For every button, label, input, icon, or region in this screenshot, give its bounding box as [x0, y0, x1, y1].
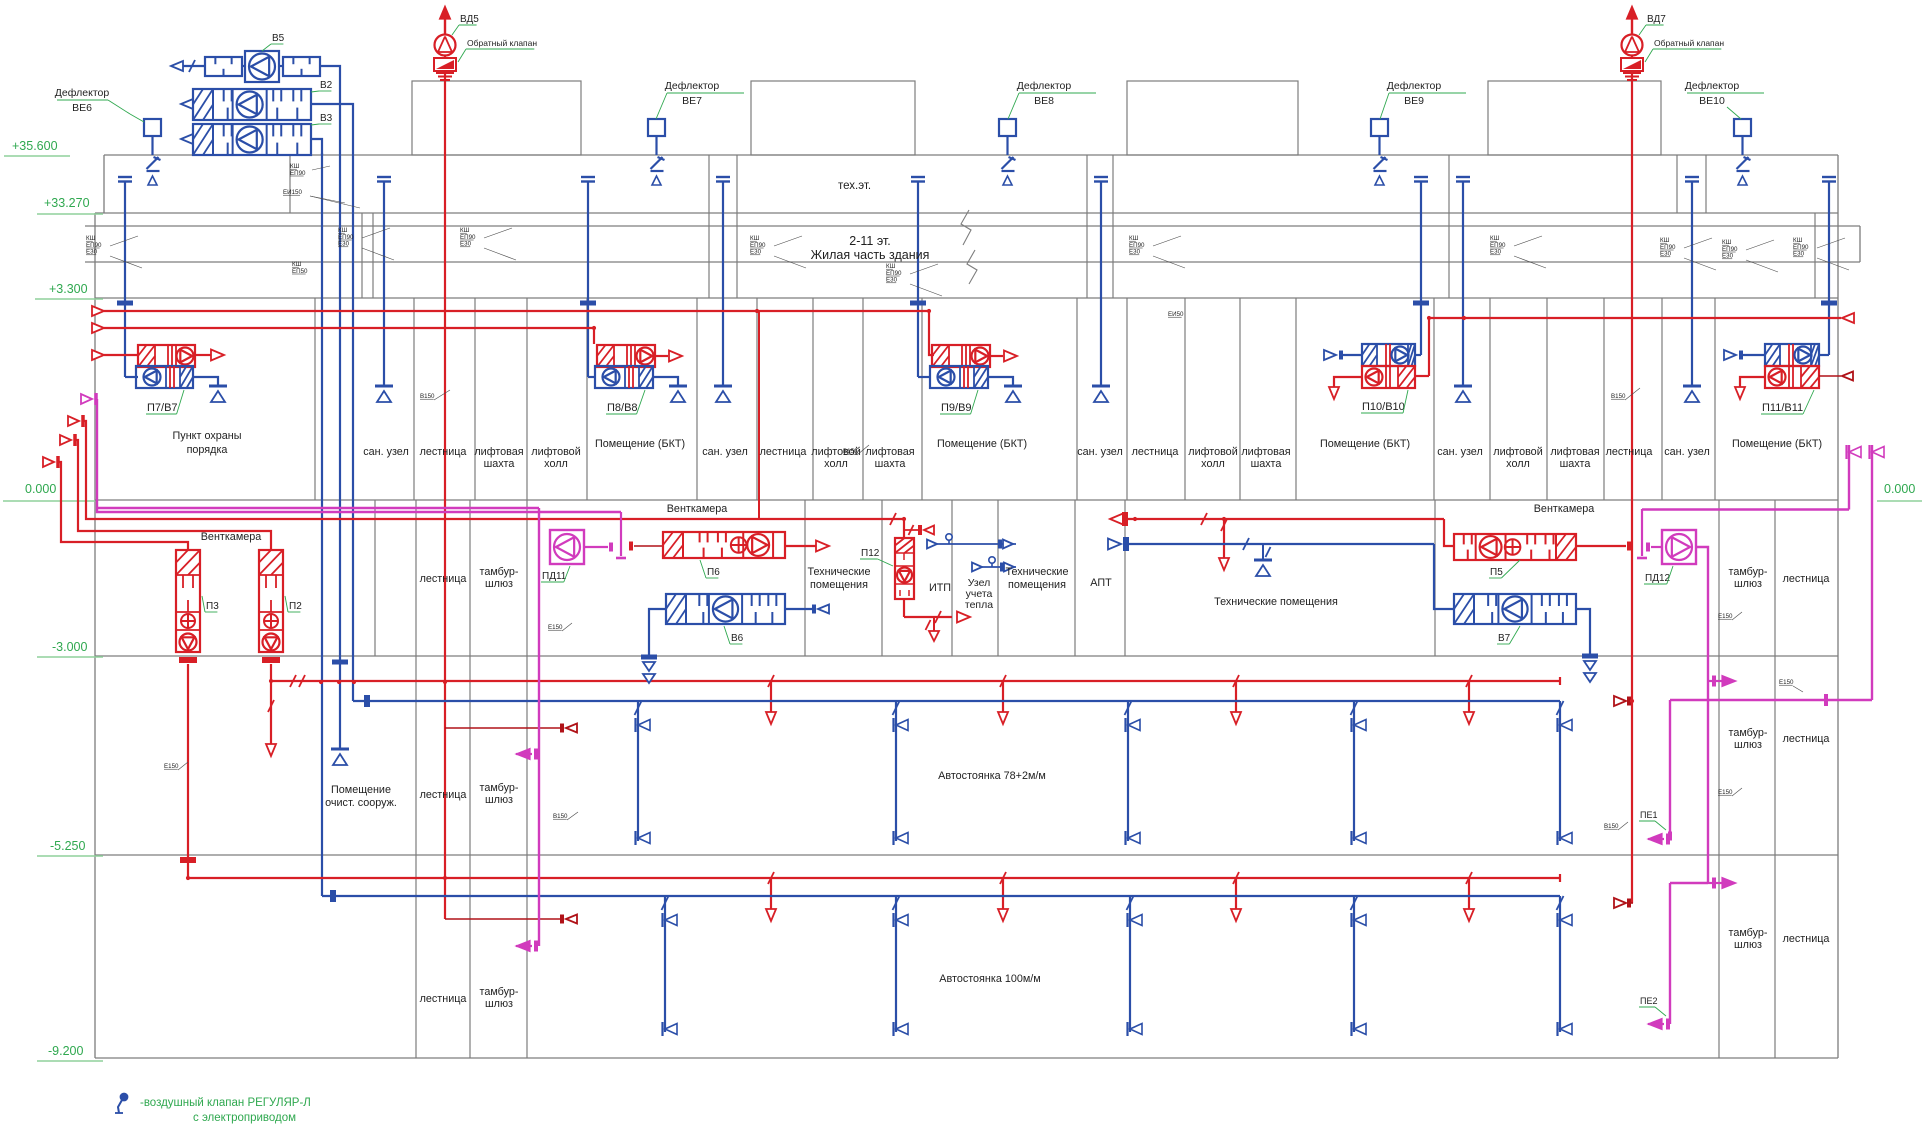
supply/exhaust unit P11/V11 blue box — [1765, 344, 1819, 366]
blue riser from B3 down to parking level2 main — [321, 153, 323, 896]
B5 silencer right — [283, 57, 320, 76]
blue outlet to grille P7 — [193, 377, 218, 386]
red supply outlet arrow P9 — [990, 355, 1003, 357]
blue parking level1 main — [353, 700, 1560, 702]
red supply outlet arrow P7 — [195, 354, 211, 356]
apartment exhaust riser cap at x=588 — [581, 176, 595, 178]
svg-text:П10/В10: П10/В10 — [1362, 401, 1405, 413]
svg-text:В7: В7 — [1498, 633, 1511, 644]
blue outlet to grille P8 — [653, 377, 678, 386]
svg-text:В3: В3 — [320, 113, 333, 124]
red vertical link to ventchamber main — [758, 311, 760, 519]
PE2 drop — [1669, 883, 1671, 1024]
supply/exhaust unit P8/V8 red box — [597, 345, 655, 367]
P12 outlet down to ITP — [903, 599, 905, 617]
basement -3.000 level walls — [374, 500, 376, 656]
roof exhaust fan VD7 arrow up — [1631, 12, 1633, 34]
magenta riser right A — [1848, 445, 1850, 510]
svg-text:лифтовой: лифтовой — [531, 446, 580, 458]
riser san-uzel 20 with grille — [1691, 182, 1693, 386]
PD11 drop with cap — [620, 512, 622, 556]
heat meter piping row2 — [972, 563, 982, 572]
slab +3.300 — [95, 297, 1838, 299]
svg-text:шахта: шахта — [1560, 458, 1591, 470]
PD12 riser branch level2 — [1712, 878, 1716, 889]
riser P8/V8 exhaust — [587, 182, 589, 377]
red exhaust to facade arrow P11 — [1819, 375, 1841, 377]
red drop to APT — [1221, 519, 1227, 531]
svg-text:лифтовой: лифтовой — [1493, 446, 1542, 458]
svg-text:лестница: лестница — [420, 993, 467, 1005]
unit P11/V11 red box — [1765, 366, 1819, 388]
svg-text:Дефлектор: Дефлектор — [1685, 80, 1740, 92]
riser san-uzel 12 with grille — [1100, 182, 1102, 386]
roof fan VD7 symbol — [1622, 35, 1643, 56]
parking level 2 walls — [415, 855, 417, 1058]
svg-text:АПТ: АПТ — [1090, 577, 1112, 589]
magenta riser right B — [1871, 445, 1873, 700]
red parking level2 supply drops — [768, 872, 774, 884]
supply unit P5 — [1454, 534, 1576, 560]
svg-text:сан. узел: сан. узел — [702, 446, 748, 458]
ITP branch down arrow — [933, 617, 935, 632]
svg-text:Помещение: Помещение — [331, 784, 391, 796]
svg-text:помещения: помещения — [810, 579, 868, 591]
junction dots — [1462, 316, 1466, 320]
apartment exhaust riser cap at x=918 — [911, 176, 925, 178]
red supply down arrow P11 — [1740, 377, 1765, 389]
unit P8/V8 blue box — [595, 366, 653, 388]
roof box 3 — [1127, 81, 1298, 155]
riser san-uzel 2 with grille — [383, 182, 385, 386]
svg-text:шлюз: шлюз — [1734, 739, 1762, 751]
pressurization intake PD11 — [81, 394, 92, 404]
apartment exhaust riser cap at x=1101 — [1094, 176, 1108, 178]
P2 flange at -3.000 — [262, 657, 280, 663]
svg-text:Автостоянка 78+2м/м: Автостоянка 78+2м/м — [938, 770, 1046, 782]
svg-text:ВД5: ВД5 — [460, 14, 479, 25]
supply unit P2 vertical — [259, 550, 283, 652]
outside air intake arrows left — [68, 416, 79, 426]
red P2 riser to parking level1 main — [270, 664, 272, 746]
heat meter piping row1 — [927, 540, 937, 549]
legend air valve icon — [121, 1094, 128, 1101]
unit P10/V10 red box — [1362, 366, 1415, 388]
svg-text:очист. сооруж.: очист. сооруж. — [325, 797, 397, 809]
deflector BE8 — [999, 119, 1016, 136]
VD5 branch parking level1 — [445, 727, 561, 729]
svg-text:П2: П2 — [289, 601, 302, 612]
roof box 4 — [1488, 81, 1661, 155]
svg-text:ПД11: ПД11 — [542, 571, 567, 582]
svg-text:П6: П6 — [707, 567, 720, 578]
svg-text:сан. узел: сан. узел — [1664, 446, 1710, 458]
svg-text:шлюз: шлюз — [485, 578, 513, 590]
svg-text:лестница: лестница — [1132, 446, 1179, 458]
PD12 inlet flange — [1646, 543, 1650, 552]
svg-text:Автостоянка 100м/м: Автостоянка 100м/м — [939, 973, 1040, 985]
red parking level1 supply main — [271, 680, 1560, 682]
B7 inlet from APT blue main — [1108, 539, 1121, 550]
svg-text:тамбур-: тамбур- — [1729, 566, 1768, 578]
red parking level2 supply main — [188, 877, 1560, 879]
red supply main 2 — [92, 323, 104, 333]
apartment exhaust riser cap at x=1421 — [1414, 176, 1428, 178]
svg-text:Венткамера: Венткамера — [1534, 503, 1595, 515]
svg-text:В5: В5 — [272, 33, 285, 44]
break mark in residential band — [961, 210, 971, 245]
magenta horizontal 0.000 right — [1642, 508, 1849, 510]
apartment exhaust riser cap at x=723 — [716, 176, 730, 178]
riser P7/V7 exhaust — [124, 182, 126, 377]
red parking level1 supply drops — [768, 675, 774, 687]
floor -3.000 slab — [95, 655, 1838, 657]
svg-text:В6: В6 — [731, 633, 744, 644]
roof fan VD5 symbol — [435, 35, 456, 56]
wire B2 outlet to riser — [311, 104, 353, 122]
svg-text:Технические: Технические — [808, 566, 871, 578]
svg-text:Дефлектор: Дефлектор — [1387, 80, 1442, 92]
P12 feed from red main — [890, 513, 896, 525]
magenta parking link level1 — [1670, 699, 1872, 701]
exhaust unit B2 — [181, 99, 193, 109]
blue intake arrow P11 — [1724, 350, 1736, 360]
svg-text:-воздушный клапан РЕГУЛЯР-Л: -воздушный клапан РЕГУЛЯР-Л — [140, 1097, 311, 1109]
check valve VD5 — [434, 58, 456, 71]
exhaust unit B6 — [649, 609, 666, 655]
apartment exhaust riser cap at x=1829 — [1822, 176, 1836, 178]
blue parking level2 exhaust risers — [662, 896, 669, 910]
svg-text:лифтовой: лифтовой — [1188, 446, 1237, 458]
red supply outlet arrow P8 — [655, 355, 668, 357]
svg-text:П12: П12 — [861, 548, 880, 559]
svg-text:шлюз: шлюз — [1734, 939, 1762, 951]
wire B3 outlet to riser — [311, 139, 322, 155]
svg-text:+33.270: +33.270 — [44, 196, 90, 210]
svg-text:ВЕ6: ВЕ6 — [72, 102, 92, 114]
svg-text:лифтовая: лифтовая — [865, 446, 914, 458]
svg-text:Венткамера: Венткамера — [667, 503, 728, 515]
svg-text:В2: В2 — [320, 80, 333, 91]
tech floor bottom slab +33.270 — [95, 212, 1838, 214]
svg-text:лестница: лестница — [420, 789, 467, 801]
red feed from main P10 — [1415, 375, 1429, 377]
red intake drop 2 to P2 — [76, 440, 271, 550]
svg-text:ПЕ1: ПЕ1 — [1640, 810, 1657, 820]
blue outlet to grille P9 — [988, 377, 1013, 386]
svg-text:шлюз: шлюз — [1734, 578, 1762, 590]
svg-text:-3.000: -3.000 — [52, 640, 87, 654]
riser P10/V10 exhaust — [1420, 182, 1422, 355]
blue parking level1 exhaust risers — [635, 701, 642, 715]
VD7 branch parking level1 — [1628, 700, 1633, 702]
PD11 branch level1 — [534, 749, 538, 760]
fan B5 — [245, 51, 279, 82]
svg-text:Технические помещения: Технические помещения — [1214, 596, 1338, 608]
roof exhaust fan VD5 arrow up — [444, 12, 446, 34]
PE2 arrow — [1666, 1019, 1670, 1030]
deflector BE6 — [144, 119, 161, 136]
red supply main right segment to BKT facade intake — [1429, 317, 1841, 319]
wire B5 outlet to riser — [320, 66, 340, 89]
VD7 branch parking level2 — [1628, 902, 1633, 904]
svg-text:лестница: лестница — [1783, 573, 1830, 585]
svg-text:тамбур-: тамбур- — [480, 986, 519, 998]
svg-text:лестница: лестница — [1783, 933, 1830, 945]
svg-text:тепла: тепла — [965, 599, 993, 611]
right wall — [1837, 155, 1839, 1058]
svg-text:ВЕ7: ВЕ7 — [682, 95, 702, 107]
svg-text:тамбур-: тамбур- — [480, 566, 519, 578]
svg-text:лестница: лестница — [420, 573, 467, 585]
svg-text:П7/В7: П7/В7 — [147, 402, 178, 414]
svg-text:+3.300: +3.300 — [49, 282, 88, 296]
svg-text:тех.эт.: тех.эт. — [838, 180, 871, 192]
svg-text:ВЕ8: ВЕ8 — [1034, 95, 1054, 107]
supply/exhaust unit P10/V10 blue box — [1362, 344, 1415, 366]
floor 0.000 slab — [95, 499, 1838, 501]
red supply down arrow P10 — [1334, 377, 1362, 389]
parking level 1 walls — [415, 656, 417, 855]
svg-text:Помещение (БКТ): Помещение (БКТ) — [937, 438, 1027, 450]
riser san-uzel 7 with grille — [722, 182, 724, 386]
blue intake arrow P10 — [1324, 350, 1336, 360]
red feed riser P8 from main2 corner — [593, 329, 595, 344]
PD11 branch level2 — [534, 941, 538, 952]
svg-text:ВД7: ВД7 — [1647, 14, 1666, 25]
deflector BE10 — [1734, 119, 1751, 136]
pressurization duct to PE riser — [97, 507, 539, 509]
B7 outlet to parking — [1576, 609, 1590, 654]
svg-text:лестница: лестница — [1783, 733, 1830, 745]
supply/exhaust unit P7/V7 red box — [138, 345, 195, 367]
ITP intake damper — [904, 529, 921, 531]
svg-text:Дефлектор: Дефлектор — [1017, 80, 1072, 92]
exhaust unit B7 right — [1454, 594, 1576, 624]
supply unit P6 — [634, 545, 663, 547]
svg-text:Венткамера: Венткамера — [201, 531, 262, 543]
svg-text:ВЕ10: ВЕ10 — [1699, 95, 1725, 107]
svg-text:шахта: шахта — [875, 458, 906, 470]
svg-text:холл: холл — [1201, 458, 1225, 470]
apartment exhaust riser cap at x=1463 — [1456, 176, 1470, 178]
magenta riser to stair vestibules left — [538, 508, 540, 946]
red P3 riser to parking level2 main — [187, 664, 189, 878]
svg-text:П5: П5 — [1490, 567, 1503, 578]
duct shaft walls in residential band — [361, 213, 363, 298]
svg-text:холл: холл — [544, 458, 568, 470]
first floor walls — [314, 298, 316, 500]
svg-text:П8/В8: П8/В8 — [607, 402, 638, 414]
svg-text:ИТП: ИТП — [929, 582, 951, 594]
apartment exhaust riser cap at x=125 — [118, 176, 132, 178]
roof box 2 — [751, 81, 915, 155]
B5 silencer left — [205, 57, 242, 76]
red riser VD7 down through building — [1631, 71, 1633, 903]
supply/exhaust unit P9/V9 red box — [932, 345, 990, 367]
red intake drop 3 to P3 — [59, 462, 188, 550]
residential mid slab — [85, 261, 1860, 263]
svg-text:тамбур-: тамбур- — [1729, 927, 1768, 939]
floor -5.250 slab — [95, 854, 1838, 856]
PD12 exhaust riser down — [1696, 547, 1708, 883]
svg-text:Обратный клапан: Обратный клапан — [467, 38, 537, 48]
pressurization fan PD12 box — [1662, 530, 1696, 564]
red feed riser P9 from main1 corner — [929, 311, 934, 355]
check valve VD7 — [1621, 58, 1643, 71]
riser P9/V9 exhaust — [917, 182, 919, 377]
PD12 T riser cap — [1641, 509, 1643, 556]
svg-text:Помещение (БКТ): Помещение (БКТ) — [595, 438, 685, 450]
exhaust unit B3 — [181, 134, 193, 144]
PE2 link — [1670, 882, 1708, 884]
red supply main 1 (+3.300 ceiling) — [92, 306, 104, 316]
PE1 arrow — [1666, 834, 1670, 845]
exhaust fan unit B5 left arrow — [171, 61, 183, 71]
svg-text:П9/В9: П9/В9 — [941, 402, 972, 414]
svg-text:тамбур-: тамбур- — [1729, 727, 1768, 739]
blue riser from B5 down to cleaning room grille — [339, 89, 341, 749]
svg-text:лестница: лестница — [420, 446, 467, 458]
svg-text:шахта: шахта — [484, 458, 515, 470]
supply unit P3 vertical — [176, 550, 200, 652]
PD11 fan box — [550, 530, 584, 564]
svg-text:холл: холл — [824, 458, 848, 470]
svg-text:П11/В11: П11/В11 — [1762, 402, 1803, 414]
tech floor internal walls — [289, 155, 291, 213]
VD5 branch parking level2 — [445, 918, 561, 920]
svg-text:Дефлектор: Дефлектор — [55, 87, 110, 99]
roof box 1 — [412, 81, 581, 155]
svg-text:Технические: Технические — [1006, 566, 1069, 578]
deflector BE7 — [648, 119, 665, 136]
svg-text:лифтовая: лифтовая — [1550, 446, 1599, 458]
slab line — [85, 225, 1860, 227]
apartment exhaust riser cap at x=1692 — [1685, 176, 1699, 178]
svg-text:ПЕ2: ПЕ2 — [1640, 996, 1657, 1006]
svg-text:ПД12: ПД12 — [1645, 573, 1671, 584]
svg-text:0.000: 0.000 — [25, 482, 56, 496]
red intake arrow P7 — [92, 350, 104, 360]
svg-text:порядка: порядка — [187, 444, 228, 456]
red riser VD5 down through building — [444, 71, 446, 919]
blue riser from B2 down to parking level1 main — [352, 122, 354, 701]
red feed riser P10 from right main — [1428, 318, 1430, 376]
apartment exhaust riser cap at x=384 — [377, 176, 391, 178]
blue parking level2 main — [322, 895, 1560, 897]
svg-text:-5.250: -5.250 — [50, 839, 85, 853]
APT red supply main — [1110, 514, 1123, 525]
svg-text:Дефлектор: Дефлектор — [665, 80, 720, 92]
riser P11/V11 exhaust — [1828, 182, 1830, 355]
svg-text:шлюз: шлюз — [485, 794, 513, 806]
svg-text:ВЕ9: ВЕ9 — [1404, 95, 1424, 107]
supply unit P12 vertical — [895, 538, 914, 599]
P3 flange at -3.000 — [179, 657, 197, 663]
svg-text:Пункт охраны: Пункт охраны — [173, 430, 242, 442]
svg-text:+35.600: +35.600 — [12, 139, 58, 153]
svg-text:Помещение (БКТ): Помещение (БКТ) — [1732, 438, 1822, 450]
svg-text:лифтовая: лифтовая — [1241, 446, 1290, 458]
svg-text:лестница: лестница — [760, 446, 807, 458]
deflector BE9 — [1371, 119, 1388, 136]
svg-text:шахта: шахта — [1251, 458, 1282, 470]
svg-text:Жилая часть здания: Жилая часть здания — [811, 248, 930, 262]
B6 outlet arrow — [785, 608, 812, 610]
svg-text:П3: П3 — [206, 601, 219, 612]
svg-text:2-11 эт.: 2-11 эт. — [849, 234, 890, 248]
riser san-uzel 16 with grille — [1462, 182, 1464, 386]
PD12 riser branch level1 — [1712, 676, 1716, 687]
blue grille drop in tech rooms — [1262, 544, 1264, 560]
svg-text:-9.200: -9.200 — [48, 1044, 83, 1058]
red main corner down to P5 — [1444, 519, 1454, 546]
svg-text:Обратный клапан: Обратный клапан — [1654, 38, 1724, 48]
svg-text:лестница: лестница — [1606, 446, 1653, 458]
svg-text:помещения: помещения — [1008, 579, 1066, 591]
floor -9.200 slab — [95, 1057, 1838, 1059]
svg-text:шлюз: шлюз — [485, 998, 513, 1010]
svg-text:Помещение (БКТ): Помещение (БКТ) — [1320, 438, 1410, 450]
unit P9/V9 blue box — [930, 366, 988, 388]
svg-text:с электроприводом: с электроприводом — [193, 1112, 296, 1124]
tech floor top slab — [104, 154, 1838, 156]
P6 outlet arrow — [785, 545, 816, 547]
left wall — [103, 155, 105, 213]
svg-text:холл: холл — [1506, 458, 1530, 470]
svg-text:сан. узел: сан. узел — [1437, 446, 1483, 458]
PE1 drop — [1669, 700, 1671, 839]
svg-text:0.000: 0.000 — [1884, 482, 1915, 496]
unit P7/V7 blue box — [136, 366, 193, 388]
PD11 outlet — [584, 546, 608, 548]
red intake drop 1 to ventchamber main — [84, 421, 904, 519]
svg-text:сан. узел: сан. узел — [1077, 446, 1123, 458]
svg-text:тамбур-: тамбур- — [480, 782, 519, 794]
svg-text:сан. узел: сан. узел — [363, 446, 409, 458]
svg-text:лифтовая: лифтовая — [474, 446, 523, 458]
